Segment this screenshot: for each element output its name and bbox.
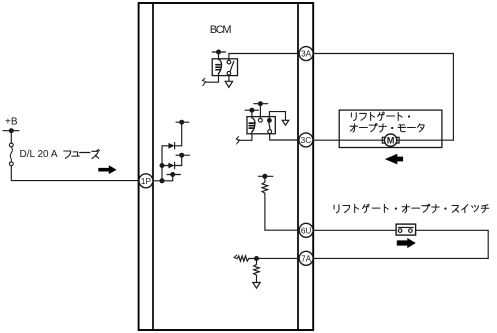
connector 1P [139, 174, 153, 188]
diode D1 [162, 145, 168, 147]
diode D2 [162, 165, 168, 167]
svg-text:+B: +B [5, 117, 18, 128]
kana label fuse: フューズ [64, 149, 100, 158]
relay K2 common [267, 118, 272, 123]
svg-text:7A: 7A [301, 254, 312, 263]
connector 3C [299, 133, 313, 147]
wire 3A to motor right side [313, 54, 453, 141]
relay K2 NO contact wire [259, 104, 261, 119]
relay K2 stub B [254, 103, 268, 105]
node stub (diode cluster lower) [167, 174, 181, 176]
relay K1 coil feed [218, 52, 220, 59]
relay K1 contact [227, 60, 231, 64]
connector 6U [299, 223, 313, 237]
svg-text:BCM: BCM [210, 24, 232, 36]
motor M1 circle [384, 134, 396, 146]
arrow (fuse, right) [98, 165, 116, 174]
wire contact to 3A [229, 54, 299, 61]
ground triangle K2 [282, 120, 289, 125]
BCM right inner line [297, 3, 299, 330]
arrow (motor, left) [385, 154, 403, 165]
arrow (switch, right) [397, 238, 416, 248]
connector 3A [299, 47, 313, 61]
relay K2 NC contact [268, 130, 272, 134]
svg-text:1P: 1P [141, 177, 152, 186]
resistor R3 vertical [254, 261, 260, 283]
kana label motor line1: リフトゲート・ [351, 112, 410, 121]
relay K1 stub [212, 51, 225, 53]
wire to 7A [257, 257, 300, 259]
wire to 6U [265, 193, 299, 230]
node stub D1 [176, 121, 189, 123]
motor brushes [382, 137, 384, 143]
fuse D/L 20A (two circles + s-curve) [9, 143, 13, 147]
junction dot [160, 163, 165, 168]
svg-text:3A: 3A [301, 50, 312, 59]
relay K2 coil feed [251, 110, 253, 117]
wire vertical branch [161, 146, 163, 181]
wire +B down to fuse [10, 131, 12, 144]
squiggle end [236, 137, 239, 144]
ground triangle K1 [225, 81, 232, 87]
svg-text:6U: 6U [301, 226, 312, 235]
relay K1 coil [218, 59, 221, 73]
node stub D2 [176, 154, 190, 156]
relay K2 coil to squiggle [238, 132, 252, 140]
svg-text:D/L 20 A: D/L 20 A [20, 149, 58, 160]
switch contacts [398, 229, 402, 233]
wire contact to 3C [270, 133, 299, 140]
relay K2 armature [269, 122, 270, 130]
wire contact down to triangle [228, 75, 230, 81]
resistor R1 vertical [262, 179, 268, 194]
wire 6U to switch [313, 229, 396, 231]
svg-text:3C: 3C [301, 136, 312, 145]
kana label switch: リフトゲート・オープナ・スイッチ [334, 204, 489, 213]
junction dot [160, 178, 165, 183]
node +B stub [3, 130, 19, 132]
junction +B dot [9, 128, 14, 133]
ground triangle R3 [253, 283, 260, 289]
node stub resistor top [258, 175, 273, 177]
relay K2 stub A [245, 109, 258, 111]
BCM left inner line [152, 3, 154, 330]
switch SW1 box [396, 224, 416, 235]
relay K2 coil [252, 118, 255, 132]
connector 7A [299, 251, 313, 265]
wire switch to 7A loop [313, 230, 488, 258]
BCM box outer rectangle [139, 3, 314, 330]
wire through motor [313, 139, 453, 141]
relay K1 coil to ground squiggle [206, 74, 219, 83]
squiggle end [202, 78, 205, 85]
relay K2 box [247, 117, 275, 134]
wire fuse to 1P [11, 166, 139, 181]
motor box [339, 110, 442, 147]
squiggle + resistor R2 horizontal [234, 255, 237, 259]
svg-text:M: M [387, 136, 395, 146]
relay K1 box [212, 59, 237, 76]
kana label motor line2: オープナ・モータ [350, 124, 424, 132]
wire 1P to diode cluster [153, 175, 173, 181]
